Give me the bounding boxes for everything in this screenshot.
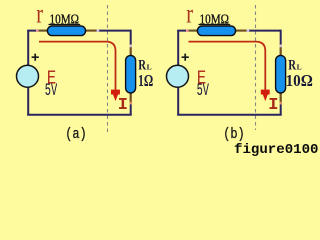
svg-text:r: r xyxy=(186,0,193,29)
polarity + mark (b) xyxy=(182,54,189,61)
svg-text:r: r xyxy=(36,0,43,29)
wire: left branch (b) xyxy=(177,31,179,115)
junction: right of r (a) xyxy=(97,29,100,32)
svg-text:10MΩ: 10MΩ xyxy=(50,13,80,28)
polarity + mark (a) xyxy=(32,54,39,61)
current path (red) (b) xyxy=(189,42,266,91)
wire: right branch (b) xyxy=(280,30,282,115)
lead wire: below RL (b) xyxy=(280,93,282,105)
underline of 10MΩ (a) xyxy=(49,24,81,26)
current arrowhead (a) xyxy=(111,90,120,102)
load line (dashed) circuit (a) xyxy=(107,5,109,135)
underline of 10MΩ (b) xyxy=(199,24,231,26)
wire: bottom branch (a) xyxy=(27,114,132,116)
wire: top branch (b) xyxy=(177,30,281,32)
load line (dashed) circuit (b) xyxy=(255,5,257,130)
junction: left of r (b) xyxy=(186,29,189,32)
svg-text:1Ω: 1Ω xyxy=(138,71,153,90)
wire: right branch (a) xyxy=(130,30,132,115)
lead wire: left of resistor r (b) xyxy=(187,30,199,32)
wire: top branch (a) xyxy=(27,30,131,32)
svg-text:(a): (a) xyxy=(65,126,87,143)
svg-text:I: I xyxy=(268,96,278,115)
resistor r body (a) xyxy=(47,26,85,36)
svg-text:5V: 5V xyxy=(197,81,210,101)
lead wire: right of resistor r (a) xyxy=(85,30,98,32)
resistor r body (b) xyxy=(197,26,235,36)
lead wire: above RL (a) xyxy=(130,44,132,56)
resistor RL body (b) xyxy=(276,55,286,93)
junction: below RL (a) xyxy=(130,102,133,105)
junction: right of r (b) xyxy=(247,29,250,32)
junction: above RL (a) xyxy=(130,45,133,48)
voltage source E (a) xyxy=(17,65,39,87)
wire: left branch (a) xyxy=(27,31,29,115)
voltage source E (b) xyxy=(167,65,189,87)
svg-text:5V: 5V xyxy=(45,81,58,101)
resistor RL body (a) xyxy=(126,55,136,93)
svg-text:10MΩ: 10MΩ xyxy=(200,13,230,28)
junction: above RL (b) xyxy=(280,45,283,48)
lead wire: above RL (b) xyxy=(280,44,282,56)
junction: left of r (a) xyxy=(36,29,39,32)
wire: bottom branch (b) xyxy=(177,114,282,116)
current path (red) (a) xyxy=(39,42,116,91)
svg-text:I: I xyxy=(118,96,128,115)
lead wire: below RL (a) xyxy=(130,93,132,105)
svg-text:10Ω: 10Ω xyxy=(286,71,313,90)
lead wire: left of resistor r (a) xyxy=(37,30,49,32)
current arrowhead (b) xyxy=(261,90,270,102)
svg-text:(b): (b) xyxy=(223,126,245,143)
junction: below RL (b) xyxy=(280,102,283,105)
lead wire: right of resistor r (b) xyxy=(235,30,248,32)
svg-text:figure0100: figure0100 xyxy=(234,142,319,158)
